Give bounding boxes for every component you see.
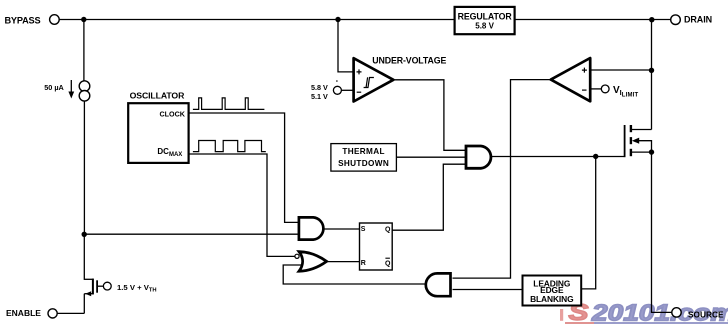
terminal SOURCE	[672, 308, 681, 317]
wire: UV tap down	[338, 20, 353, 72]
arrow 50uA	[70, 80, 72, 94]
wire: drain rail down	[651, 20, 653, 130]
svg-text:OSCILLATOR: OSCILLATOR	[130, 91, 185, 101]
wire: AND to mosfet gate	[492, 156, 626, 158]
op-amp U3 current limit comparator (left pointing)	[551, 58, 590, 101]
terminal ENABLE	[48, 309, 57, 318]
AND gate U6 (left pointing)	[426, 273, 451, 296]
wire: rail down to transistor	[83, 234, 85, 280]
wire: dcmax output	[188, 154, 294, 256]
wire: source rail down	[652, 152, 672, 312]
svg-text:5.8 V: 5.8 V	[311, 83, 328, 92]
wire: comparator output down to AND	[453, 80, 551, 279]
wire: AND to latch S	[324, 228, 359, 230]
svg-text:BYPASS: BYPASS	[5, 16, 41, 26]
wire: top bus BYPASS to regulator	[59, 19, 454, 21]
terminal 1.5V+VTH	[103, 282, 111, 290]
svg-text:THERMAL: THERMAL	[342, 147, 384, 156]
oscillator box	[128, 103, 188, 163]
svg-text:UNDER-VOLTAGE: UNDER-VOLTAGE	[372, 55, 446, 65]
wire: clock output	[188, 113, 298, 222]
svg-text:5.1 V: 5.1 V	[311, 92, 328, 101]
regulator box	[455, 7, 515, 34]
node: drain junction	[649, 17, 654, 22]
svg-text:CLOCK: CLOCK	[159, 109, 185, 118]
node: enable junction	[82, 232, 87, 237]
bubble on OR input	[295, 254, 299, 258]
stray dot	[336, 80, 338, 82]
svg-text:ENABLE: ENABLE	[6, 308, 41, 318]
AND gate U4 (2-input, clock/enable)	[299, 217, 323, 239]
wire: OR to latch R	[326, 261, 359, 263]
wire: LEB to AND U6	[453, 289, 523, 291]
waveform dcmax	[193, 141, 266, 152]
AND gate U2 (3-input)	[466, 146, 491, 168]
terminal DRAIN	[671, 15, 681, 25]
node: bypass junction	[81, 17, 86, 22]
node: gate junction	[593, 154, 598, 159]
svg-text:VILIMIT: VILIMIT	[613, 85, 639, 99]
wire: comparator plus to drain rail	[590, 69, 651, 71]
wire: regulator to DRAIN	[515, 19, 671, 21]
wire: enable terminal to rail	[57, 312, 84, 314]
wire: bypass vertical rail	[83, 20, 85, 82]
svg-text:Q: Q	[385, 226, 391, 233]
wire: enable horizontal to AND gate	[84, 233, 298, 235]
svg-text:S: S	[361, 226, 366, 233]
wire: latch Q up to AND	[392, 164, 465, 230]
svg-text:50 µA: 50 µA	[44, 83, 64, 92]
waveform clock pulses	[193, 98, 265, 110]
mosfet Q2 output	[630, 129, 651, 131]
terminal UV ref	[333, 86, 341, 94]
LEB box	[523, 276, 582, 306]
transistor Q1 (enable sense, gate at right)	[84, 278, 93, 280]
svg-text:R: R	[361, 260, 366, 267]
svg-text:SOURCE: SOURCE	[688, 309, 724, 319]
svg-text:Q: Q	[385, 260, 391, 267]
current source I1 50uA	[79, 81, 90, 92]
svg-text:1.5 V + VTH: 1.5 V + VTH	[117, 283, 157, 294]
plus UV	[357, 69, 362, 74]
svg-text:DRAIN: DRAIN	[684, 15, 712, 25]
svg-text:5.8 V: 5.8 V	[475, 21, 494, 30]
svg-text:REGULATOR: REGULATOR	[458, 12, 513, 22]
terminal VILIMIT	[590, 88, 601, 90]
minus UV	[357, 91, 362, 93]
wire: LEB right up to gate node	[581, 156, 596, 289]
node: UV tap junction	[335, 17, 340, 22]
op-amp U1 under-voltage comparator	[354, 58, 394, 101]
wire: UV output	[393, 80, 465, 151]
svg-text:BLANKING: BLANKING	[530, 294, 573, 304]
hysteresis glyph	[364, 77, 374, 87]
wire: thermal to AND	[396, 156, 465, 158]
OR gate U5	[299, 252, 327, 272]
svg-text:SHUTDOWN: SHUTDOWN	[338, 159, 389, 168]
thermal shutdown box	[331, 144, 397, 172]
latch box	[360, 223, 393, 270]
wire: U6 output to OR input	[283, 265, 425, 284]
terminal BYPASS	[50, 15, 60, 25]
watermark S20101.com	[560, 299, 728, 324]
